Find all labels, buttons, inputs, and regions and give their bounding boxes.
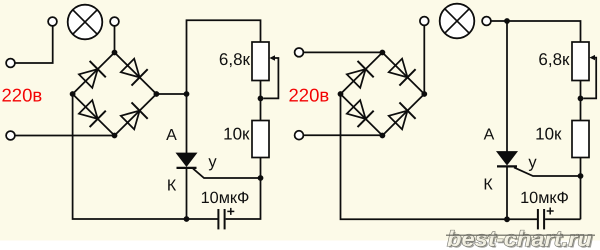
label plus C2 — [547, 208, 554, 215]
wire bridge edge B-R — [382, 94, 424, 136]
watermark best-chart.ru — [446, 227, 595, 250]
wire minus bus — [73, 94, 218, 219]
wire anode — [506, 21, 508, 152]
wire bridge edge L-B — [73, 94, 115, 136]
junction gate node — [258, 175, 264, 181]
junction wiper node — [258, 96, 264, 102]
terminal X4 — [6, 131, 15, 140]
terminal X8 — [482, 17, 491, 26]
wire top bus — [187, 20, 261, 153]
diode VD6 — [387, 57, 415, 85]
capacitor C2 — [538, 209, 544, 229]
svg-text:6,8к: 6,8к — [538, 50, 570, 69]
wire bridge edge L-T — [341, 53, 383, 95]
wire top right — [491, 21, 580, 42]
lamp HL2 — [440, 4, 475, 39]
svg-text:10к: 10к — [535, 125, 562, 144]
svg-text:А: А — [166, 127, 177, 144]
lamp HL1 — [68, 5, 103, 40]
terminal X2 — [48, 17, 57, 26]
svg-text:К: К — [167, 178, 177, 195]
junction node left — [70, 91, 76, 97]
svg-text:6,8к: 6,8к — [219, 50, 251, 69]
wire gate — [514, 167, 581, 176]
wire — [114, 26, 116, 52]
terminal X3 — [110, 17, 119, 26]
terminal X1 — [6, 59, 15, 68]
svg-text:у: у — [528, 154, 537, 172]
junction node top — [112, 50, 118, 56]
wire wiper — [263, 58, 278, 98]
wire — [260, 81, 262, 121]
diode VD8 — [387, 102, 415, 130]
junction gate node — [578, 173, 584, 179]
wire — [545, 218, 580, 220]
resistor R3 6,8к potentiometer — [572, 42, 589, 81]
wire bridge edge L-B — [341, 94, 383, 136]
wire — [580, 81, 582, 121]
svg-text:А: А — [484, 127, 495, 144]
wire — [15, 135, 114, 137]
junction wiper node — [578, 96, 584, 102]
junction anode top node — [504, 18, 510, 24]
terminal X6 — [295, 131, 304, 140]
wire bridge edge L-T — [73, 53, 115, 95]
junction node right — [421, 91, 427, 97]
terminal X5 — [295, 48, 304, 57]
junction node right — [154, 91, 160, 97]
svg-text:10мкФ: 10мкФ — [201, 189, 250, 207]
junction cathode-bus node — [184, 216, 190, 222]
svg-text:К: К — [483, 177, 493, 194]
wire — [156, 93, 186, 95]
diode VD2 — [119, 57, 147, 85]
junction node top — [380, 50, 386, 56]
thyristor VS2 — [497, 152, 517, 167]
wire bridge edge T-R — [115, 53, 157, 95]
terminal X7 — [420, 17, 429, 26]
capacitor C1 — [218, 209, 224, 229]
wire — [304, 51, 383, 53]
wire minus bus right — [341, 94, 538, 219]
wire — [15, 26, 53, 63]
wire — [226, 158, 261, 219]
resistor R1 6,8к potentiometer — [252, 42, 269, 81]
junction cathode-bus node — [504, 216, 510, 222]
junction node left — [338, 91, 344, 97]
diode VD4 — [119, 102, 147, 130]
diode VD7 — [345, 99, 373, 127]
wire bridge edge T-R — [382, 53, 424, 95]
junction node bottom — [112, 133, 118, 139]
wiper arrow head — [269, 55, 275, 60]
svg-text:10к: 10к — [223, 125, 250, 144]
label plus C1 — [227, 208, 234, 215]
diode VD1 — [78, 61, 106, 89]
wire — [423, 26, 425, 94]
junction anode node — [184, 91, 190, 97]
wire wiper — [583, 58, 596, 99]
resistor R4 10к — [572, 121, 589, 158]
svg-text:220в: 220в — [2, 85, 43, 106]
svg-text:у: у — [208, 153, 217, 171]
svg-text:220в: 220в — [289, 85, 330, 106]
resistor R2 10к — [252, 121, 269, 158]
diode VD5 — [345, 61, 373, 89]
wire cathode — [186, 169, 188, 219]
wire cathode — [506, 168, 508, 220]
svg-text:10мкФ: 10мкФ — [520, 189, 569, 207]
wire — [580, 158, 582, 220]
thyristor VS1 — [177, 153, 197, 168]
wire gate — [193, 169, 261, 178]
wire bridge edge B-R — [115, 94, 157, 136]
svg-text:best-chart.ru: best-chart.ru — [447, 227, 592, 250]
diode VD3 — [78, 99, 106, 127]
wiper arrow head — [589, 55, 595, 60]
junction node bottom — [380, 133, 386, 139]
wire — [304, 134, 383, 136]
